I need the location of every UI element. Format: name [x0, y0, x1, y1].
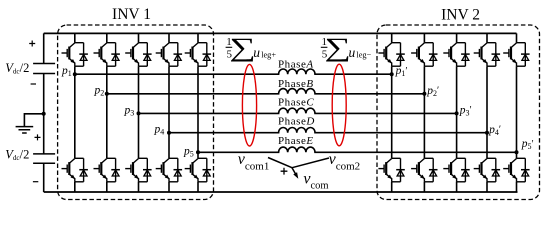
wire leg INV2 phase 2 vertical [423, 33, 425, 192]
svg-text:u: u [349, 45, 356, 60]
bottom DC bus [44, 191, 518, 193]
svg-text:PhaseB: PhaseB [278, 78, 314, 90]
label + (top cap) [29, 41, 35, 47]
IGBT cell INV1 bottom leg1 [62, 158, 88, 182]
junction node p3 prime [455, 111, 459, 115]
wire phase C: p3 to p3' [139, 108, 457, 113]
capacitor C2 plates [33, 154, 55, 163]
red ellipse left (u_leg+ group) [242, 64, 256, 146]
IGBT cell INV2 top leg2 [411, 43, 437, 66]
left DC rail [43, 33, 45, 192]
top DC bus [44, 32, 517, 34]
IGBT cell INV1 bottom leg5 [185, 158, 211, 182]
junction ground tap node [42, 112, 46, 116]
INV2 dashed box [377, 25, 540, 200]
svg-text:leg+: leg+ [261, 51, 276, 60]
label minus (top cap) [31, 83, 36, 85]
label 1/5 sum u_leg- [321, 33, 372, 62]
svg-text:leg−: leg− [356, 51, 371, 60]
svg-text:PhaseD: PhaseD [278, 115, 315, 127]
INV1 dashed box [58, 25, 214, 200]
v_com2 arrow line [292, 158, 329, 168]
IGBT cell INV2 bottom leg1 [378, 158, 404, 182]
junction node p5 [196, 150, 200, 154]
svg-text:p3′: p3′ [459, 105, 472, 118]
junction node p5 prime [515, 150, 519, 154]
wire leg INV1 phase 3 vertical [138, 33, 140, 192]
junction node p3 [137, 111, 141, 115]
svg-text:PhaseA: PhaseA [278, 58, 314, 70]
ground bars [16, 127, 34, 133]
junction node p4 [167, 131, 171, 135]
wire phase A: p1 to p1' [75, 69, 392, 74]
wire leg INV1 phase 4 vertical [168, 33, 170, 192]
svg-text:INV 1: INV 1 [112, 6, 151, 23]
IGBT cell INV2 bottom leg3 [443, 158, 469, 182]
junction node p1 prime [390, 72, 394, 76]
IGBT cell INV2 top leg3 [443, 43, 469, 66]
wire phase E: p5 to p5' [198, 147, 517, 152]
junction node p2 prime [422, 92, 426, 96]
capacitor C1 plates [33, 64, 55, 74]
junction node p2 [105, 92, 109, 96]
IGBT cell INV2 bottom leg5 [503, 158, 529, 182]
label + (v_com) [281, 168, 288, 175]
wire leg INV1 phase 2 vertical [106, 33, 108, 192]
IGBT cell INV2 bottom leg2 [411, 158, 437, 182]
ground wire [24, 114, 43, 126]
IGBT cell INV1 top leg2 [94, 43, 120, 66]
svg-text:PhaseC: PhaseC [278, 96, 314, 108]
junction node p1 [73, 72, 77, 76]
svg-text:p5′: p5′ [521, 138, 534, 151]
wire leg INV2 phase 5 vertical [516, 33, 518, 192]
IGBT cell INV1 top leg3 [125, 43, 151, 66]
svg-text:PhaseE: PhaseE [278, 135, 314, 147]
junction node p4 prime [485, 131, 489, 135]
IGBT cell INV2 top leg4 [474, 43, 500, 66]
IGBT cell INV2 bottom leg4 [474, 158, 500, 182]
label 1/5 sum u_leg+ [226, 33, 277, 62]
wire leg INV2 phase 3 vertical [456, 33, 458, 192]
v_com1 arrow line [268, 158, 292, 168]
wire leg INV2 phase 1 vertical [391, 33, 393, 192]
IGBT cell INV2 top leg5 [503, 43, 529, 66]
IGBT cell INV2 top leg1 [378, 43, 404, 66]
svg-text:p2′: p2′ [426, 85, 439, 98]
label + (bottom cap) [35, 134, 41, 140]
wire leg INV1 phase 5 vertical [197, 33, 199, 192]
IGBT cell INV1 bottom leg2 [94, 158, 120, 182]
svg-text:p1′: p1′ [395, 65, 408, 78]
label minus (bottom cap) [33, 181, 38, 183]
v_com arrow [292, 168, 296, 175]
wire phase B: p2 to p2' [107, 89, 425, 94]
svg-text:∑: ∑ [230, 33, 256, 62]
red ellipse right (u_leg- group) [332, 64, 346, 146]
IGBT cell INV1 bottom leg3 [125, 158, 151, 182]
IGBT cell INV1 top leg4 [156, 43, 182, 66]
svg-text:p4′: p4′ [488, 124, 501, 137]
svg-text:∑: ∑ [325, 33, 351, 62]
IGBT cell INV1 top leg5 [185, 43, 211, 66]
IGBT cell INV1 top leg1 [62, 43, 88, 66]
wire leg INV1 phase 1 vertical [74, 33, 76, 192]
wire leg INV2 phase 4 vertical [486, 33, 488, 192]
IGBT cell INV1 bottom leg4 [156, 158, 182, 182]
wire phase D: p4 to p4' [169, 127, 487, 132]
svg-text:INV 2: INV 2 [441, 7, 480, 24]
svg-text:u: u [253, 45, 260, 60]
